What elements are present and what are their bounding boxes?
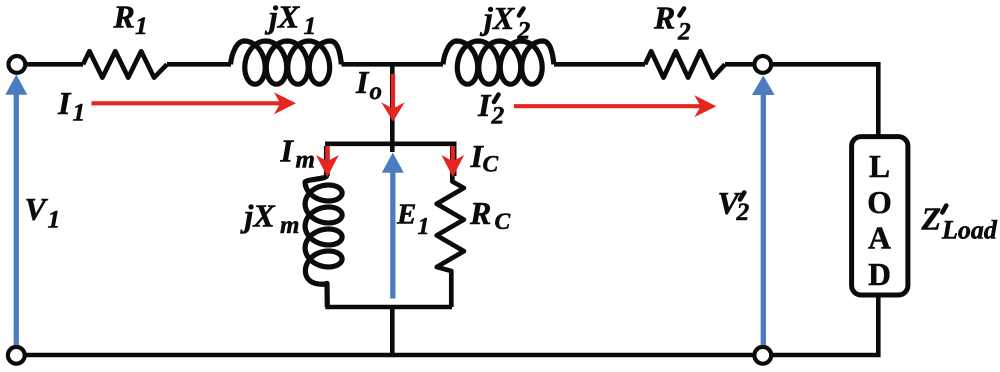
- svg-text:m: m: [296, 147, 315, 174]
- svg-text:jX: jX: [240, 198, 276, 234]
- svg-text:jX: jX: [264, 0, 300, 35]
- svg-text:L: L: [869, 149, 890, 184]
- svg-text:1: 1: [73, 98, 86, 127]
- svg-text:E: E: [396, 199, 416, 231]
- svg-text:A: A: [868, 221, 891, 256]
- svg-text:R: R: [113, 0, 135, 35]
- svg-text:I: I: [355, 64, 370, 100]
- svg-text:2: 2: [491, 101, 505, 130]
- svg-text:jX: jX: [479, 0, 515, 36]
- svg-text:R: R: [469, 195, 491, 231]
- svg-text:I: I: [477, 87, 492, 123]
- svg-text:1: 1: [418, 214, 430, 240]
- svg-text:I: I: [57, 85, 72, 121]
- svg-text:R: R: [653, 0, 675, 36]
- svg-text:o: o: [370, 78, 383, 105]
- svg-text:I: I: [280, 133, 295, 169]
- svg-text:2: 2: [517, 16, 531, 45]
- svg-text:1: 1: [135, 11, 148, 40]
- svg-text:D: D: [868, 257, 891, 292]
- svg-text:1: 1: [304, 11, 317, 40]
- svg-text:O: O: [867, 185, 892, 220]
- svg-text:2: 2: [677, 17, 691, 46]
- svg-text:2: 2: [736, 197, 750, 226]
- svg-text:Load: Load: [941, 216, 998, 245]
- svg-text:C: C: [483, 152, 499, 178]
- svg-text:V: V: [25, 191, 49, 227]
- svg-text:C: C: [495, 209, 511, 235]
- svg-text:Z: Z: [921, 201, 942, 237]
- svg-text:1: 1: [48, 205, 61, 234]
- svg-text:m: m: [280, 212, 299, 239]
